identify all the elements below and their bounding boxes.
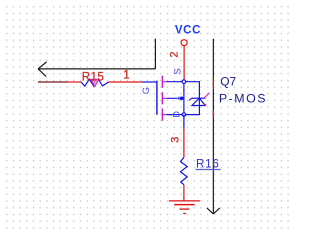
junction ring drain pin [182,113,186,117]
svg-text:2: 2 [169,51,181,57]
wire R15 red left [68,81,82,83]
wire source pin to junction [167,81,184,83]
junction ring source pin [182,80,186,84]
wire red segment upper on right black wire [212,78,214,89]
label R16 underline [196,169,221,171]
svg-text:S: S [172,68,183,74]
transistor Q7 internal vertical [183,82,185,115]
svg-text:3: 3 [170,137,182,143]
pin 1 gate pin segment [141,81,157,83]
wire black vertical stub [154,39,156,69]
pin 2 source stub [162,81,166,83]
wire body pin to junction [167,97,184,99]
junction dot body pin [178,97,181,100]
body diode of Q7 [189,93,209,106]
transistor Q7 gate bar [156,81,158,115]
svg-text:R16: R16 [196,158,220,171]
wire R16 to ground [183,185,185,201]
pin body stub [162,97,166,99]
wire VCC stem [183,46,185,80]
svg-text:1: 1 [123,70,129,82]
wire red segment lower on right black wire [212,110,214,118]
pin 3 drain segment blue [183,115,185,129]
svg-text:R15: R15 [82,70,105,83]
body diode branch loop [184,82,200,115]
transistor Q7 source channel bar [161,76,163,88]
arrowhead left [38,62,47,77]
transistor Q7 drain channel bar [161,109,163,121]
svg-text:P-MOS: P-MOS [219,91,267,105]
resistor R15 zigzag [81,79,109,86]
pin 3 drain stub [162,114,166,116]
wire black horizontal segment [38,68,155,70]
wire black right vertical [212,39,214,214]
wire drain pin to junction [167,114,184,116]
transistor Q7 body channel bar [161,92,163,104]
resistor R16 zigzag [181,157,188,184]
wire R15 maroon segment [38,81,68,83]
svg-text:VCC: VCC [175,25,201,37]
svg-text:D: D [171,111,181,118]
svg-text:G: G [141,87,151,94]
wire pin3 red [183,129,185,158]
power port VCC circle [181,40,187,46]
resistor R15 wiper triangle [91,79,99,86]
ground [169,201,200,214]
wire R15 red right [109,81,142,83]
arrowhead down [207,208,220,214]
svg-text:Q7: Q7 [220,74,236,88]
